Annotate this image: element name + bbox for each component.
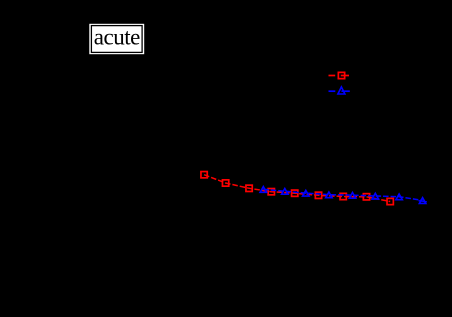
legend red entry: [329, 72, 350, 78]
label box "acute": [89, 24, 144, 54]
svg-text:acute: acute: [94, 25, 140, 50]
blue line tail through last triangle: [419, 201, 427, 202]
blue series dashed line: [263, 189, 422, 200]
blue series triangle markers: [260, 187, 426, 204]
red series dashed line: [204, 175, 390, 202]
red series square markers: [201, 172, 393, 205]
legend blue entry: [329, 87, 350, 94]
